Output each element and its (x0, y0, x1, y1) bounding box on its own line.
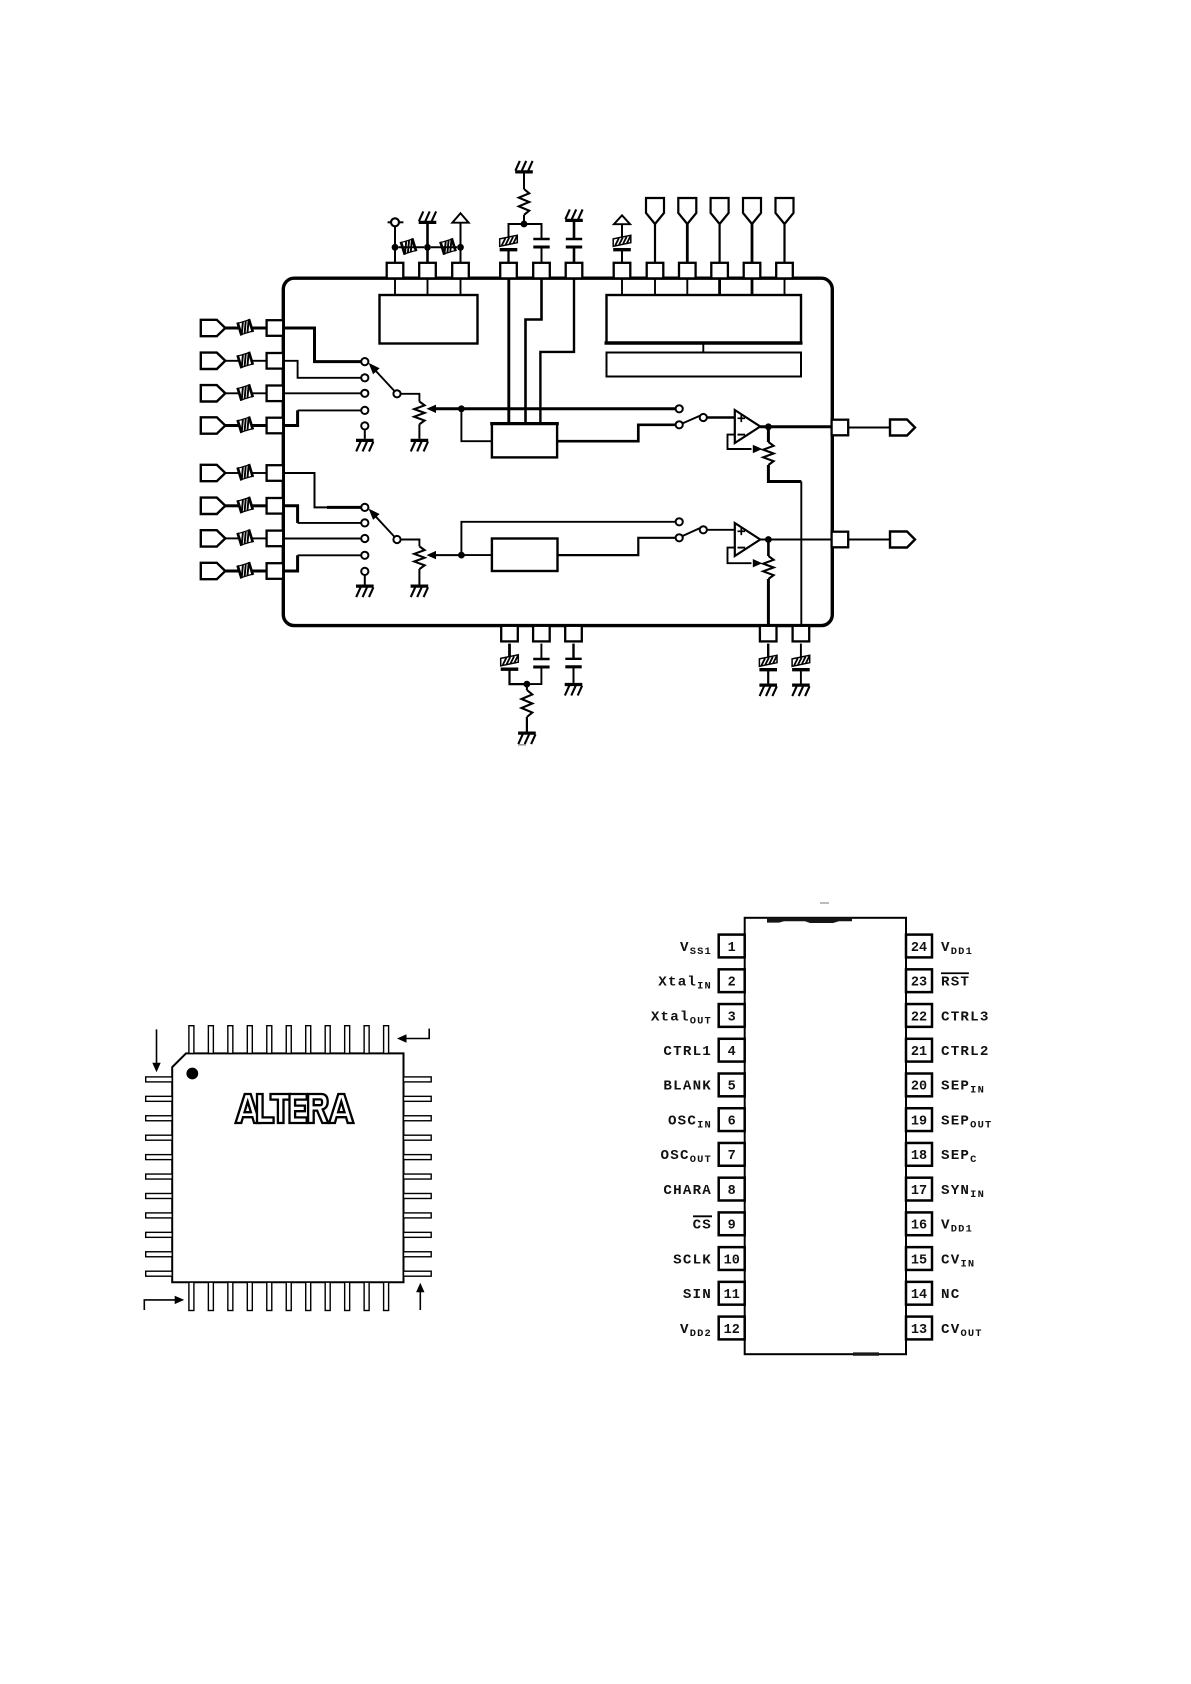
pin 11 (top edge) (744, 263, 761, 279)
QFP right pin 7 (404, 1193, 432, 1198)
ground G2 (up) above resistor R3 (515, 161, 533, 172)
resistor RL4 (hatched) (238, 416, 253, 432)
block box 5 (processor ch2) (492, 539, 558, 572)
DIP pin 13 box (906, 1317, 932, 1340)
pin 12 (top edge) (776, 263, 793, 279)
svg-text:8: 8 (728, 1184, 736, 1199)
wire N2 to gain resistor R4 (767, 427, 770, 442)
wire IN8 to resistor (225, 570, 239, 573)
node dot N3 (458, 552, 465, 559)
resistor RL6 (hatched) (238, 497, 253, 513)
capacitor C5 (hatched) below pin B1 (501, 655, 519, 669)
thick run into SW3 contact a (327, 506, 361, 509)
ground G6 (356, 586, 374, 597)
QFP right pin 3 (404, 1116, 432, 1121)
SW1 contact d (361, 407, 368, 414)
svg-text:24: 24 (911, 941, 927, 956)
QFP pin 1 index dot (186, 1068, 198, 1080)
SW3 contact d (361, 552, 368, 559)
wire node B branches (509, 224, 542, 239)
resistor R1 (hatched) (398, 246, 424, 248)
gain resistor R5 (763, 556, 773, 579)
wire pin L4 to SW1 contact d (283, 410, 297, 425)
pin L5 (left edge) (267, 465, 284, 481)
pin B1 (bottom edge) (501, 626, 518, 642)
pin 7 (top edge) (614, 263, 631, 279)
pin 1 (top edge) (387, 263, 404, 279)
scan speck above DIP (820, 902, 829, 904)
QFP top pin 4 (247, 1026, 252, 1054)
DIP pin 7 box (719, 1143, 745, 1166)
capacitor C4 (hatched) on pin 7 (613, 235, 631, 249)
QFP right pin 1 (404, 1077, 432, 1082)
wire N1 to SW2 contact (main line ch1) (461, 407, 675, 410)
SW3 contact c (361, 535, 368, 542)
wire R3 to node B (523, 215, 525, 224)
pin 5 (top edge) (533, 263, 550, 279)
capacitor C9 (hatched) below pin B5 (792, 655, 810, 669)
QFP bottom pin 2 (208, 1282, 213, 1310)
QFP right pin 8 (404, 1213, 432, 1218)
wire RL1 to pin (251, 327, 266, 330)
svg-text:CS: CS (693, 1218, 712, 1234)
scan fleck (518, 744, 526, 746)
DIP pin 10 box (719, 1247, 745, 1270)
wire box5 out to SW4 lower contact (558, 538, 676, 555)
svg-text:1: 1 (728, 941, 736, 956)
pin R2 (right edge) (832, 532, 849, 548)
wire IN3 to resistor (225, 392, 239, 394)
resistor R6 (526, 684, 528, 690)
QFP right pin 11 (404, 1271, 432, 1276)
wires top pins 7-12 into box2 (621, 278, 623, 295)
svg-text:CTRL1: CTRL1 (663, 1044, 712, 1060)
wire C9 to ground (800, 670, 802, 684)
capacitor C3 on pin 6 (566, 239, 582, 247)
U3 output wire (760, 539, 831, 541)
svg-text:14: 14 (911, 1288, 927, 1303)
wire pin 4 to box 4 (507, 278, 510, 424)
block box 2 (logic) (607, 295, 802, 343)
pin 8 (top edge) (647, 263, 664, 279)
node dot N4 (765, 536, 772, 543)
ground G7 (411, 586, 429, 597)
DIP pin 6 box (719, 1108, 745, 1131)
SW3 contact b (361, 519, 368, 526)
wire P1 to ground (418, 424, 420, 439)
wire pin B2 down (540, 644, 542, 659)
wire C4 to pin 7 (621, 250, 623, 263)
wire box4 out to SW2 lower contact (557, 425, 676, 441)
svg-text:23: 23 (911, 976, 927, 991)
wire C5 to node N5 (510, 669, 527, 684)
block box 4 (processor ch1) (492, 424, 557, 458)
svg-text:12: 12 (724, 1323, 740, 1338)
IC U1 body outline (283, 278, 832, 625)
pin 4 (top edge) (500, 263, 517, 279)
capacitor C8 (hatched) below pin B4 (759, 655, 777, 669)
svg-text:5: 5 (728, 1080, 736, 1095)
wire N1 down into box 4 (461, 409, 492, 441)
QFP top pin 10 (364, 1026, 369, 1054)
DIP pin 17 box (906, 1178, 932, 1201)
QFP top pin 3 (228, 1026, 233, 1054)
node dot N5 (524, 681, 531, 688)
wire flag F2 to pin (686, 224, 689, 263)
DIP package body (745, 918, 906, 1354)
input connector flag IN5 (201, 465, 226, 481)
QFP bottom pin 1 (189, 1282, 194, 1310)
connector flag F2 on top pin (678, 198, 696, 224)
pin 3 (top edge) (452, 263, 469, 279)
DIP pin 4 box (719, 1039, 745, 1062)
QFP left pin 6 (146, 1174, 173, 1179)
capacitor C6 below pin B2 (533, 659, 549, 667)
pin L3 (left edge) (267, 386, 284, 402)
QFP top pin 6 (286, 1026, 291, 1054)
wire IN5 to resistor (225, 472, 239, 474)
wire P2 to ground (418, 569, 420, 584)
SW3 pole contact (393, 536, 400, 543)
svg-text:BLANK: BLANK (663, 1079, 712, 1095)
pin R1 (right edge) (832, 420, 849, 436)
resistor R3 (519, 189, 529, 215)
QFP bottom pin 5 (267, 1282, 272, 1310)
resistor RL8 (hatched) (238, 562, 253, 578)
QFP right pin 2 (404, 1096, 432, 1101)
wire pin B4 down (767, 644, 769, 657)
wire IN4 to resistor (225, 424, 239, 427)
wire G2 to R3 (523, 174, 525, 190)
pin B5 (bottom edge) (793, 626, 810, 642)
SW1 contact c (361, 390, 368, 397)
svg-text:15: 15 (911, 1253, 927, 1268)
ground G4 (356, 440, 374, 451)
resistor RL7 (hatched) (238, 529, 253, 545)
wire RL5 to pin (251, 472, 266, 474)
potentiometer P2 (414, 546, 424, 569)
input connector flag IN7 (201, 530, 226, 546)
connector flag F1 on top pin (646, 198, 664, 224)
wire pin L3 to SW1 contact c (283, 392, 360, 394)
QFP bottom pin 11 (384, 1282, 389, 1310)
open triangle T1 on pin 3 (452, 213, 468, 223)
ground G1 (up) on pin 2 (419, 211, 437, 222)
QFP top-right arrow (406, 1029, 429, 1039)
QFP left pin 8 (146, 1213, 173, 1218)
QFP left pin 7 (146, 1193, 173, 1198)
DIP pin 1 box (719, 935, 745, 958)
QFP right pin 4 (404, 1135, 432, 1140)
QFP top pin 7 (306, 1026, 311, 1054)
SW2 contact upper (676, 405, 683, 412)
pin 6 (top edge) (566, 263, 583, 279)
SW1 contact e (361, 422, 368, 429)
wire pin B3 down (572, 644, 574, 659)
svg-text:CHARA: CHARA (663, 1183, 712, 1199)
QFP top pin 1 (189, 1026, 194, 1054)
QFP bottom pin 7 (306, 1282, 311, 1310)
QFP top pin 2 (208, 1026, 213, 1054)
capacitor C2 on pin 5 (533, 239, 549, 247)
wire C7 to ground (573, 667, 575, 683)
wire pin B1 down (508, 644, 511, 656)
wire pin 6 to box 4 (jog) (540, 278, 574, 424)
pin L2 (left edge) (267, 353, 284, 369)
DIP pin 16 box (906, 1212, 932, 1235)
wire SW2 pole to op-amp U2 (707, 416, 735, 418)
pin L1 (left edge) (267, 320, 284, 336)
wire RL8 to pin (251, 570, 266, 573)
wire pin L1 to SW1 contact a (283, 328, 360, 362)
QFP top-left arrow (156, 1029, 158, 1063)
svg-text:13: 13 (911, 1323, 927, 1338)
node dot B (521, 221, 528, 228)
DIP pin 21 box (906, 1039, 932, 1062)
DIP pin 18 box (906, 1143, 932, 1166)
wire RL4 to pin (251, 424, 266, 427)
box4 heavy top edge (490, 422, 559, 425)
QFP bottom pin 10 (364, 1282, 369, 1310)
wire pin 5 to box 4 (jog) (526, 278, 542, 424)
U2 output wire (760, 425, 831, 428)
DIP pin 20 box (906, 1074, 932, 1097)
resistor RL3 (hatched) (238, 384, 253, 400)
QFP bottom-left arrow (144, 1300, 175, 1310)
wire N3 into box 5 (461, 554, 492, 556)
op-amp U3 (735, 523, 760, 556)
SW3 contact e (361, 568, 368, 575)
wire pin1 to node (394, 226, 396, 263)
wire SW1 pole to pot P1 (401, 394, 420, 402)
overline on pin 23 label (941, 972, 969, 974)
ground G11 (792, 685, 810, 696)
wire pin L7 to SW3 contact c (283, 538, 360, 540)
wire pin L2 to SW1 contact b (283, 361, 360, 378)
pin B3 (bottom edge) (565, 626, 582, 642)
svg-text:19: 19 (911, 1114, 927, 1129)
wire flag F5 to pin (783, 224, 785, 263)
pin B2 (bottom edge) (533, 626, 550, 642)
resistor RL2 (hatched) (238, 352, 253, 368)
svg-text:SCLK: SCLK (673, 1252, 712, 1268)
ALTERA logo (236, 1094, 354, 1123)
SW4 contact lower (676, 534, 683, 541)
QFP right pin 5 (404, 1155, 432, 1160)
block box 3 (register) (607, 353, 802, 377)
pin 9 (top edge) (679, 263, 696, 279)
connector flag F4 on top pin (743, 198, 761, 224)
wire R4 to bottom pin B5 (jog) (768, 465, 801, 482)
svg-text:CTRL2: CTRL2 (941, 1044, 990, 1060)
wire pin3 (460, 223, 462, 263)
svg-text:21: 21 (911, 1045, 927, 1060)
SW1 contact b (361, 374, 368, 381)
scan smudge bottom (853, 1352, 879, 1355)
DIP pin 5 box (719, 1074, 745, 1097)
wire pin B5 down (800, 644, 802, 657)
output wire to flag OUT2 (848, 539, 890, 541)
QFP right pin 9 (404, 1232, 432, 1237)
pin 2 (top edge) (419, 263, 436, 279)
wires top pins 1-3 into box1 (394, 278, 396, 295)
SW4 contact upper (676, 518, 683, 525)
block box 1 (oscillator) (380, 295, 478, 344)
QFP bottom pin 3 (228, 1282, 233, 1310)
wire flag F4 to pin (751, 224, 754, 263)
DIP pin 12 box (719, 1317, 745, 1340)
DIP pin 3 box (719, 1004, 745, 1027)
QFP left pin 2 (146, 1096, 173, 1101)
QFP top pin 5 (267, 1026, 272, 1054)
QFP left pin 3 (146, 1116, 173, 1121)
wire N3 up to SW4 upper contact (461, 522, 675, 555)
QFP top pin 9 (345, 1026, 350, 1054)
svg-text:10: 10 (724, 1253, 740, 1268)
svg-text:20: 20 (911, 1080, 927, 1095)
wire RL6 to pin (251, 504, 266, 507)
DIP pin 9 box (719, 1212, 745, 1235)
wire SW3 contact e to ground (364, 575, 366, 585)
DIP pin 11 box (719, 1282, 745, 1305)
svg-text:SIN: SIN (683, 1287, 712, 1303)
svg-text:9: 9 (728, 1219, 736, 1234)
overline on pin 9 label (693, 1215, 712, 1217)
wire IN2 to resistor (225, 360, 239, 362)
QFP bottom pin 4 (247, 1282, 252, 1310)
pin L6 (left edge) (267, 498, 284, 514)
pin B4 (bottom edge) (760, 626, 777, 642)
wire SW1 contact e to ground (364, 430, 366, 439)
QFP left pin 5 (146, 1155, 173, 1160)
QFP bottom pin 8 (325, 1282, 330, 1310)
DIP pin 15 box (906, 1247, 932, 1270)
SW1 contact a (361, 358, 368, 365)
box2 heavy bottom edge (605, 341, 803, 345)
wire pin L6 to SW3 contact b (283, 506, 297, 523)
svg-text:3: 3 (728, 1010, 736, 1025)
wire IN7 to resistor (225, 537, 239, 539)
SW3 wiper arm with arrow (375, 515, 395, 536)
DIP pin 8 box (719, 1178, 745, 1201)
node dot A3 (457, 244, 464, 251)
SW2 pole (700, 414, 707, 421)
svg-text:NC: NC (941, 1287, 960, 1303)
svg-text:6: 6 (728, 1114, 736, 1129)
pin L4 (left edge) (267, 418, 284, 434)
wire pin L8 to SW3 contact d (283, 555, 297, 571)
svg-text:4: 4 (728, 1045, 736, 1060)
svg-text:16: 16 (911, 1219, 927, 1234)
ground G5 (411, 440, 429, 451)
svg-text:11: 11 (724, 1288, 740, 1303)
open triangle T2 on pin 7 (614, 215, 630, 224)
capacitor C1 (hatched) on pin 4 (500, 235, 518, 249)
DIP pin 24 box (906, 935, 932, 958)
SW1 pole contact (393, 390, 400, 397)
pin L8 (left edge) (267, 563, 284, 579)
feedback wire U3 minus to R5 wiper arrow (728, 548, 752, 564)
wire RL3 to pin (251, 392, 266, 394)
node dot A2 (424, 244, 431, 251)
terminal circle on pin 1 (388, 221, 404, 223)
scan smudge top (767, 917, 852, 923)
SW1 wiper arm with arrow (375, 370, 395, 391)
DIP pin 14 box (906, 1282, 932, 1305)
QFP left pin 11 (146, 1271, 173, 1276)
wire R5 to bottom pin B4 (767, 579, 770, 627)
svg-text:CTRL3: CTRL3 (941, 1009, 990, 1025)
wire C8 to ground (767, 670, 769, 684)
resistor R2 (hatched) (431, 246, 457, 248)
QFP top pin 11 (384, 1026, 389, 1054)
output connector flag OUT2 (890, 532, 915, 548)
wire pin L5 to SW3 contact a (283, 473, 360, 507)
wire C6 to node N5 (527, 667, 542, 684)
QFP left pin 10 (146, 1252, 173, 1257)
svg-text:RST: RST (941, 975, 970, 991)
QFP right pin 6 (404, 1174, 432, 1179)
wire flag F3 to pin (718, 224, 720, 263)
QFP right pin 10 (404, 1252, 432, 1257)
ground G10 (759, 685, 777, 696)
svg-text:7: 7 (728, 1149, 736, 1164)
svg-text:17: 17 (911, 1184, 927, 1199)
wire box2 to box3 (702, 343, 704, 353)
op-amp U2 (735, 410, 760, 443)
ground G3 (up) above C3 (565, 209, 583, 220)
wire N4 to gain resistor R5 (767, 540, 770, 557)
input connector flag IN6 (201, 498, 226, 514)
QFP left pin 9 (146, 1232, 173, 1237)
input connector flag IN4 (201, 417, 226, 433)
feedback wire U2 minus to R4 wiper arrow (728, 435, 752, 449)
wire IN1 to resistor (225, 327, 239, 330)
SW2 arm (683, 416, 700, 423)
QFP bottom-right arrow (419, 1292, 421, 1310)
wiper arrow into P2 (427, 551, 437, 559)
SW4 arm (683, 528, 700, 536)
wiper arrow into P1 (427, 405, 437, 413)
wire flag F1 to pin (654, 224, 656, 263)
svg-text:18: 18 (911, 1149, 927, 1164)
output connector flag OUT1 (890, 420, 915, 436)
input connector flag IN3 (201, 385, 226, 401)
resistor RL1 (hatched) (238, 319, 253, 335)
connector flag F3 on top pin (711, 198, 729, 224)
wire SW3 pole to pot P2 (401, 540, 420, 547)
input connector flag IN8 (201, 563, 226, 579)
wire T2 to C4 (621, 224, 623, 236)
SW3 contact a (361, 504, 368, 511)
QFP bottom pin 9 (345, 1282, 350, 1310)
ground G8 (518, 733, 536, 744)
QFP bottom pin 6 (286, 1282, 291, 1310)
wire RL2 to pin (251, 360, 266, 362)
wire R6 to ground (526, 717, 528, 732)
ground G9 (565, 685, 583, 696)
node dot N1 (458, 405, 465, 412)
node dot A1 (392, 244, 399, 251)
gain resistor R4 (763, 442, 773, 465)
pin 10 (top edge) (711, 263, 728, 279)
input connector flag IN2 (201, 353, 226, 369)
input connector flag IN1 (201, 320, 226, 336)
svg-text:2: 2 (728, 976, 736, 991)
SW2 contact lower (676, 421, 683, 428)
SW4 pole (700, 526, 707, 533)
node dot N2 (765, 423, 772, 430)
